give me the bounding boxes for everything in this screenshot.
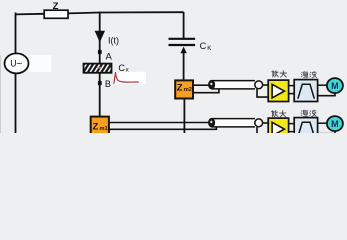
svg-text:C: C — [200, 41, 207, 51]
svg-text:~: ~ — [16, 58, 22, 70]
svg-text:m2: m2 — [184, 87, 192, 93]
svg-text:A: A — [106, 51, 113, 62]
svg-text:Z: Z — [93, 121, 99, 132]
svg-text:C: C — [118, 63, 125, 73]
svg-text:B: B — [105, 79, 111, 89]
svg-text:m1: m1 — [100, 126, 108, 132]
svg-text:Z: Z — [53, 1, 59, 12]
svg-text:I(t): I(t) — [108, 36, 119, 46]
svg-text:Z: Z — [177, 82, 183, 93]
